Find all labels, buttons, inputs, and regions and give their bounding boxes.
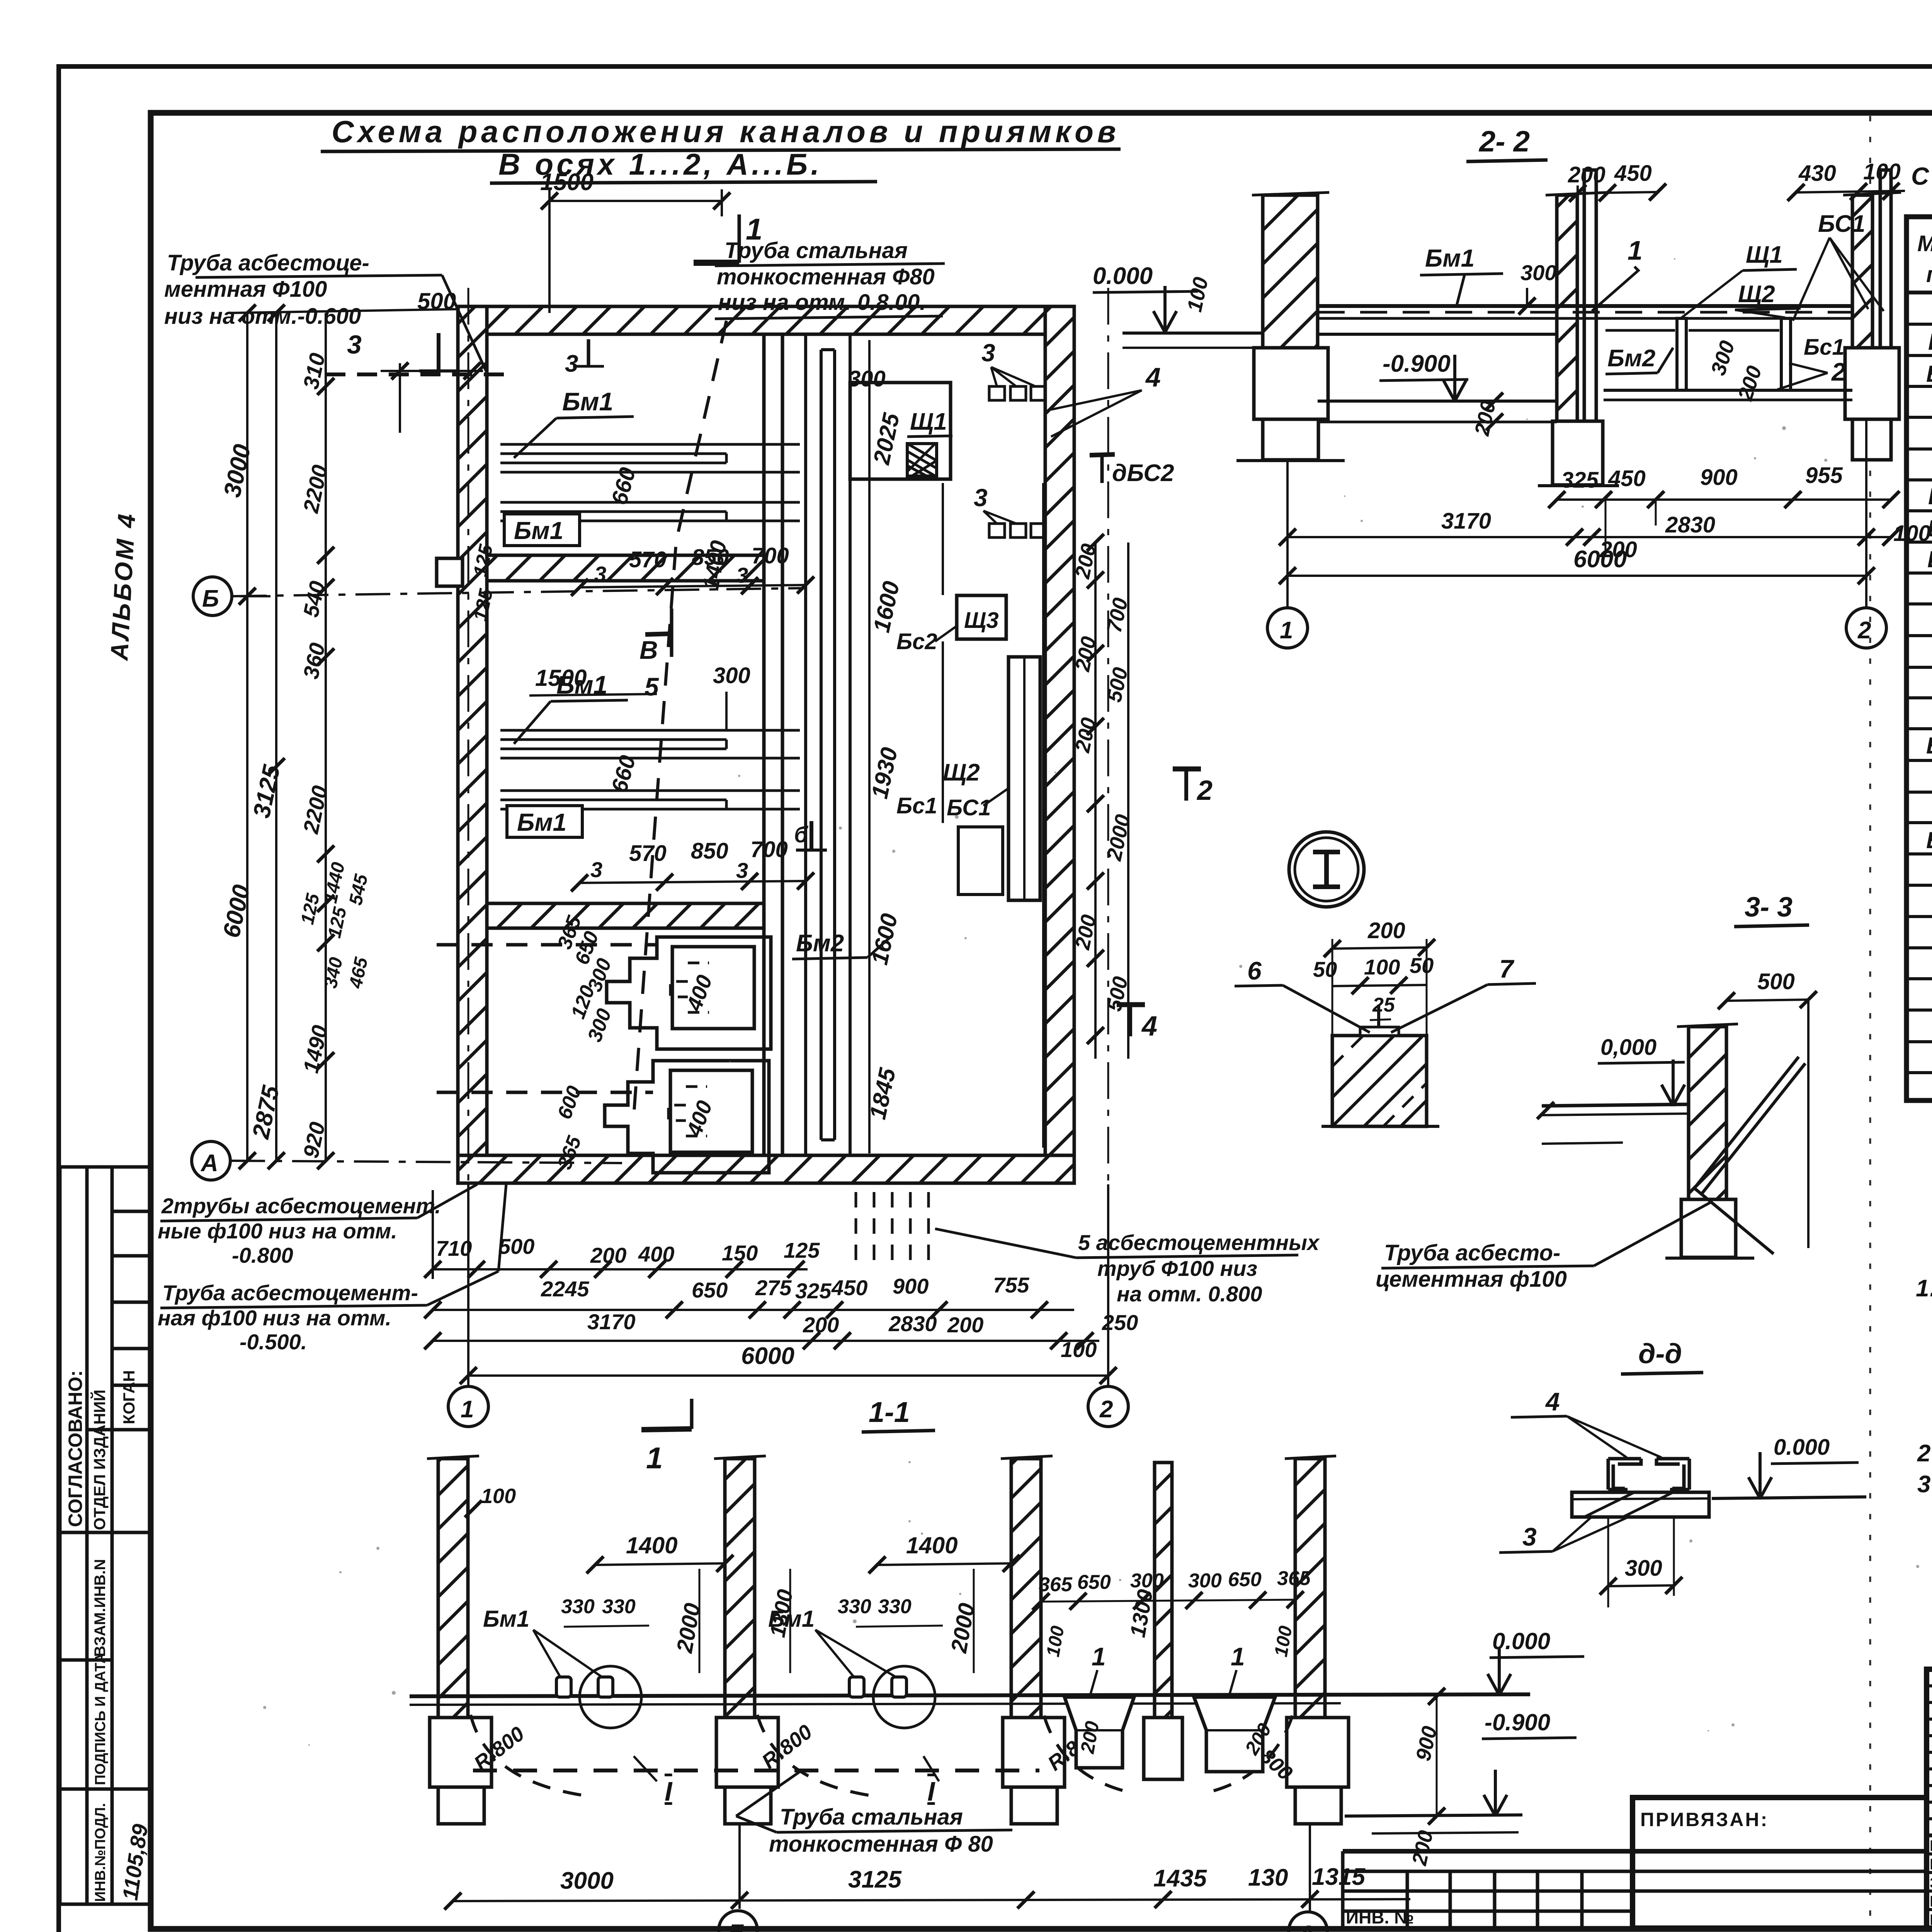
svg-text:ные ф100 низ на отм.: ные ф100 низ на отм. xyxy=(158,1219,397,1243)
T2 cut flag xyxy=(1173,767,1201,772)
svg-text:Щ1: Щ1 xyxy=(1746,241,1783,268)
svg-text:900: 900 xyxy=(893,1274,929,1298)
pit 1 stepped outline xyxy=(607,937,771,1049)
box Щ3 xyxy=(957,595,1006,639)
1-1 dims 365 650 300 300 650 365 xyxy=(1039,1567,1311,1596)
3-3 diagonal pipe xyxy=(1694,1057,1805,1254)
svg-text:1: 1 xyxy=(461,1396,474,1423)
svg-text:Бм1: Бм1 xyxy=(1425,244,1475,272)
svg-text:365: 365 xyxy=(1277,1567,1311,1590)
plan bottom dim row C xyxy=(433,1340,1099,1342)
plan bottom exterior wall xyxy=(458,1155,1074,1183)
svg-text:5 асбестоцементных: 5 асбестоцементных xyxy=(1078,1230,1320,1255)
svg-text:ОТДЕЛ ИЗДАНИЙ: ОТДЕЛ ИЗДАНИЙ xyxy=(90,1389,109,1530)
svg-text:цементная ф100: цементная ф100 xyxy=(1376,1267,1567,1292)
svg-text:А: А xyxy=(200,1150,218,1177)
dashed lines pits to wall xyxy=(437,943,657,947)
interior vertical wall xyxy=(764,334,782,1155)
1-1 footing f2 xyxy=(716,1718,778,1787)
channel vertical lines xyxy=(806,334,850,1155)
svg-text:100: 100 xyxy=(1893,521,1931,546)
svg-text:2830: 2830 xyxy=(1665,512,1715,537)
1-1 stud pair 2 xyxy=(849,1677,906,1697)
svg-text:1400: 1400 xyxy=(626,1532,677,1558)
svg-text:325: 325 xyxy=(795,1279,832,1303)
svg-text:2: 2 xyxy=(1857,617,1871,644)
svg-text:-0.500.: -0.500. xyxy=(240,1330,307,1354)
svg-text:низ на отм. 0.8.00.: низ на отм. 0.8.00. xyxy=(718,290,926,315)
svg-text:2245: 2245 xyxy=(541,1277,589,1301)
plan right exterior wall xyxy=(1045,306,1074,1183)
svg-text:450: 450 xyxy=(831,1276,867,1300)
top pipe text асбестоцементная xyxy=(164,250,369,329)
svg-text:3: 3 xyxy=(590,857,602,882)
svg-text:1: 1 xyxy=(1092,1642,1106,1671)
3-3 footing xyxy=(1681,1199,1736,1257)
notes text block xyxy=(1916,1275,1932,1498)
title block outline xyxy=(1633,1669,1932,1928)
1-1 column c4 thin xyxy=(1155,1463,1172,1718)
axis Б dash line xyxy=(232,588,806,596)
beam bundle B room2 xyxy=(500,730,800,809)
2-2 hanging panels xyxy=(1604,318,1852,400)
2-2 dim 200 450 top xyxy=(1568,161,1652,187)
1-1 column c5 xyxy=(1295,1459,1325,1718)
svg-text:Труба асбестоце-: Труба асбестоце- xyxy=(167,250,369,276)
svg-text:на отм. 0.800: на отм. 0.800 xyxy=(1117,1282,1262,1306)
3-3 pipe text xyxy=(1376,1240,1567,1292)
svg-text:ПОДПИСЬ И ДАТА: ПОДПИСЬ И ДАТА xyxy=(92,1653,109,1785)
svg-text:100: 100 xyxy=(1364,955,1400,979)
svg-text:Бс2: Бс2 xyxy=(1926,827,1932,853)
dashed pipe through left wall xyxy=(325,372,514,376)
table body texts xyxy=(1926,297,1932,1099)
title block signature texts xyxy=(1930,1837,1932,1929)
right dim chain of plan xyxy=(1095,543,1128,1059)
2-2 right columns xyxy=(1852,195,1872,348)
1-1 footing f1 xyxy=(430,1718,492,1787)
3-3 floor lines xyxy=(1542,1104,1689,1106)
svg-text:850: 850 xyxy=(691,838,728,864)
svg-text:5: 5 xyxy=(645,672,659,701)
cut mark 2 flag xyxy=(645,634,672,634)
svg-text:Бм2: Бм2 xyxy=(1926,361,1932,387)
1-1 column c1 xyxy=(438,1459,468,1718)
axis circle 2 plan xyxy=(1088,1386,1128,1427)
svg-text:Бс1: Бс1 xyxy=(1804,335,1845,360)
1-1 dashed Rarcs xyxy=(471,1715,1293,1796)
plan left exterior wall xyxy=(458,306,487,1183)
svg-text:Б: Б xyxy=(202,585,219,612)
svg-text:ИНЖ ДК: ИНЖ ДК xyxy=(1930,1856,1932,1873)
svg-text:2: 2 xyxy=(1831,357,1846,386)
svg-text:Бм2: Бм2 xyxy=(1607,345,1655,372)
svg-text:130: 130 xyxy=(1248,1864,1288,1891)
svg-text:1: 1 xyxy=(646,1441,663,1475)
1-1 steel pipe text xyxy=(769,1804,993,1857)
svg-text:Спецификация к схеме расположе: Спецификация к схеме расположения канало… xyxy=(1911,162,1932,190)
5 pipe text xyxy=(1078,1230,1320,1306)
extra channel inner lines right side xyxy=(869,340,1043,1153)
svg-text:2трубы асбестоцемент.: 2трубы асбестоцемент. xyxy=(161,1194,441,1218)
svg-text:Труба стальная: Труба стальная xyxy=(724,238,908,263)
svg-text:200: 200 xyxy=(1367,918,1405,943)
svg-text:I: I xyxy=(665,1776,673,1806)
svg-text:б: б xyxy=(794,822,809,847)
svg-text:25: 25 xyxy=(1372,994,1395,1016)
plan bottom dim row A xyxy=(433,1190,808,1279)
svg-text:ментная Ф100: ментная Ф100 xyxy=(164,277,327,302)
svg-text:500: 500 xyxy=(1757,969,1795,994)
svg-text:Бм1: Бм1 xyxy=(517,808,566,836)
svg-text:ПРОВЕР: ПРОВЕР xyxy=(1930,1837,1932,1854)
svg-text:поз.: поз. xyxy=(1926,262,1932,287)
svg-text:Щ3: Щ3 xyxy=(1927,546,1932,572)
fold mark dashed line xyxy=(1869,116,1871,1926)
svg-text:430: 430 xyxy=(1798,161,1836,186)
svg-text:2. Трубы учтены на листах марк: 2. Трубы учтены на листах марки ЭМ. xyxy=(1917,1440,1932,1467)
room1 dims 570 850 700 xyxy=(629,543,789,572)
1-1 under-floor dashed line xyxy=(473,1769,1039,1772)
svg-text:1: 1 xyxy=(1280,617,1293,644)
1-1 column c2 xyxy=(725,1459,755,1718)
svg-text:В: В xyxy=(639,636,658,664)
section cut 1 bottom xyxy=(641,1429,692,1430)
panel small box xyxy=(958,827,1003,895)
svg-text:I: I xyxy=(927,1776,935,1806)
svg-text:6000: 6000 xyxy=(741,1343,794,1369)
svg-text:Бс2: Бс2 xyxy=(896,629,937,654)
svg-text:500: 500 xyxy=(417,288,456,314)
beam label Бм1 boxed room1 xyxy=(504,514,580,546)
specification table grid xyxy=(1906,217,1932,1100)
svg-text:Бм1: Бм1 xyxy=(483,1606,529,1632)
svg-text:1-1: 1-1 xyxy=(869,1396,910,1428)
2-2 right footing xyxy=(1845,348,1899,419)
svg-text:ПРИВЯЗАН:: ПРИВЯЗАН: xyxy=(1640,1809,1769,1830)
svg-text:3: 3 xyxy=(736,858,748,883)
svg-text:300: 300 xyxy=(848,366,886,391)
svg-text:1: 1 xyxy=(1231,1642,1245,1671)
1-1 column c3 xyxy=(1011,1459,1041,1718)
2-2 left column xyxy=(1263,195,1318,348)
pilaster at axis Б xyxy=(437,558,463,586)
svg-text:3: 3 xyxy=(594,562,606,586)
title block left sub-table xyxy=(1927,1669,1932,1928)
svg-text:4: 4 xyxy=(1545,1387,1560,1416)
svg-text:1. Трубы заложить в бетонной п: 1. Трубы заложить в бетонной подготовке … xyxy=(1916,1275,1932,1302)
svg-text:НАЧ.ОТД: НАЧ.ОТД xyxy=(1930,1912,1932,1929)
svg-text:6000: 6000 xyxy=(1573,546,1627,573)
svg-text:650: 650 xyxy=(692,1278,728,1302)
svg-text:200: 200 xyxy=(803,1313,839,1337)
svg-text:700: 700 xyxy=(750,837,788,862)
svg-text:Щ2: Щ2 xyxy=(1738,281,1775,308)
svg-text:СОГЛАСОВАНО:: СОГЛАСОВАНО: xyxy=(65,1370,86,1527)
БС2 flag top xyxy=(1090,454,1115,455)
axis circle 1 plan xyxy=(448,1386,488,1427)
svg-text:3170: 3170 xyxy=(1441,509,1491,534)
svg-text:Труба асбесто-: Труба асбесто- xyxy=(1384,1240,1560,1265)
2-2 left footing xyxy=(1254,348,1328,419)
1-1 footing f3 xyxy=(1003,1718,1065,1787)
2-2 floor slab left span xyxy=(1318,306,1852,422)
svg-text:3: 3 xyxy=(981,339,995,367)
svg-text:200: 200 xyxy=(1568,162,1605,187)
svg-text:3: 3 xyxy=(565,350,578,377)
svg-text:1: 1 xyxy=(1628,235,1643,265)
svg-text:Бм1: Бм1 xyxy=(562,387,613,416)
svg-text:3: 3 xyxy=(736,563,748,587)
steel pipe text xyxy=(717,238,935,315)
svg-text:низ на отм.-0.600: низ на отм.-0.600 xyxy=(164,304,361,329)
svg-text:1500: 1500 xyxy=(535,665,587,691)
2-2 axis circles xyxy=(1286,461,1289,607)
svg-text:тонкостенная Ф 80: тонкостенная Ф 80 xyxy=(769,1832,993,1857)
table header texts xyxy=(1917,230,1932,287)
2-2 bottom dim row 2 xyxy=(1287,536,1891,538)
svg-text:3125: 3125 xyxy=(848,1866,902,1893)
svg-text:500: 500 xyxy=(498,1234,534,1259)
svg-text:300: 300 xyxy=(1130,1570,1164,1592)
б flag in channel xyxy=(810,821,813,850)
axis circle Б xyxy=(193,577,232,616)
svg-text:150: 150 xyxy=(722,1241,758,1265)
T4 cut flag xyxy=(1117,1002,1145,1007)
svg-text:50: 50 xyxy=(1313,957,1337,981)
svg-text:Бм1: Бм1 xyxy=(1928,329,1932,355)
plan bottom dim row D 6000 xyxy=(468,1374,1108,1377)
3-3 wall xyxy=(1689,1027,1726,1199)
pit 2 stepped outline xyxy=(605,1061,769,1173)
scan speckle noise xyxy=(263,258,1932,1746)
svg-text:850: 850 xyxy=(692,545,729,570)
1-1 dims 330 330 xyxy=(561,1595,912,1618)
1-1 bottom dim row xyxy=(453,1899,1410,1901)
svg-text:650: 650 xyxy=(1077,1571,1111,1594)
1-1 axis circle Б xyxy=(738,1824,741,1909)
svg-text:100: 100 xyxy=(481,1485,516,1508)
svg-text:д-д: д-д xyxy=(1638,1338,1682,1369)
svg-text:200: 200 xyxy=(947,1313,983,1337)
2-2 middle columns xyxy=(1557,195,1577,421)
svg-text:100: 100 xyxy=(1061,1337,1097,1362)
plan top exterior wall xyxy=(458,306,1074,334)
svg-text:2- 2: 2- 2 xyxy=(1478,125,1530,158)
detail I concrete block xyxy=(1332,1036,1427,1126)
svg-text:4: 4 xyxy=(1145,362,1161,392)
beam label Бм1 boxed room2 xyxy=(507,806,582,837)
2-2 bottom dim row 1 xyxy=(1557,498,1891,501)
hatched anchor square xyxy=(907,444,937,476)
right tall panel xyxy=(1009,657,1040,900)
svg-text:125: 125 xyxy=(784,1238,820,1262)
д-д plate xyxy=(1572,1492,1709,1517)
svg-text:ЗАВ.ГР.: ЗАВ.ГР. xyxy=(1930,1874,1932,1891)
svg-text:Труба асбестоцемент-: Труба асбестоцемент- xyxy=(162,1281,418,1305)
svg-text:50: 50 xyxy=(1410,953,1434,978)
svg-text:365: 365 xyxy=(1039,1573,1073,1596)
svg-text:2: 2 xyxy=(1099,1396,1113,1423)
5 pipes dashed bottom xyxy=(856,1192,929,1267)
svg-text:1400: 1400 xyxy=(906,1532,957,1558)
1-1 footing f4 xyxy=(1144,1718,1182,1779)
svg-text:0.000: 0.000 xyxy=(1492,1628,1550,1654)
2-2 dim 430 100 top xyxy=(1798,159,1901,186)
left dim chain 1 xyxy=(228,309,460,1161)
svg-text:Бм1: Бм1 xyxy=(514,517,563,544)
svg-text:Марка,: Марка, xyxy=(1917,231,1932,256)
svg-text:710: 710 xyxy=(436,1236,472,1260)
svg-text:тонкостенная Ф80: тонкостенная Ф80 xyxy=(717,264,935,289)
svg-text:300: 300 xyxy=(1625,1556,1662,1581)
1-1 axis circle А xyxy=(1309,1824,1311,1911)
svg-text:БС1: БС1 xyxy=(947,795,991,820)
detail I top plate xyxy=(1360,1027,1399,1036)
left margin stamp strip 2 xyxy=(60,1532,151,1904)
small embed plates top xyxy=(989,386,1045,537)
detail I dims 50 100 50 xyxy=(1313,953,1434,981)
plan axis 2 dash-dot vertical xyxy=(1107,288,1109,1385)
beam bundle A room1 xyxy=(500,444,800,521)
svg-text:1500: 1500 xyxy=(540,169,594,196)
svg-text:А: А xyxy=(1298,1921,1315,1932)
svg-text:3: 3 xyxy=(1522,1522,1537,1551)
svg-text:300: 300 xyxy=(713,663,750,688)
svg-text:-0.900: -0.900 xyxy=(1383,350,1451,377)
svg-text:955: 955 xyxy=(1805,463,1843,488)
svg-text:330: 330 xyxy=(561,1595,595,1618)
svg-text:450: 450 xyxy=(1608,466,1646,491)
svg-text:Труба стальная: Труба стальная xyxy=(780,1804,963,1830)
svg-text:650: 650 xyxy=(1228,1568,1262,1591)
svg-text:400: 400 xyxy=(638,1242,674,1266)
bottom small revision table xyxy=(1343,1851,1927,1928)
svg-text:ИНВ. №: ИНВ. № xyxy=(1346,1907,1414,1927)
svg-text:100: 100 xyxy=(1863,159,1901,184)
plan axis 1 dash-dot vertical xyxy=(468,288,469,1385)
svg-text:7: 7 xyxy=(1499,954,1515,983)
svg-text:Н.КОНТР.: Н.КОНТР. xyxy=(1930,1893,1932,1910)
svg-text:275: 275 xyxy=(755,1276,792,1300)
svg-text:Бм2: Бм2 xyxy=(796,930,844,957)
svg-text:300: 300 xyxy=(1188,1570,1222,1592)
svg-text:325: 325 xyxy=(1561,468,1599,493)
д-д channels xyxy=(1608,1459,1689,1490)
svg-text:0,000: 0,000 xyxy=(1600,1035,1656,1060)
svg-text:570: 570 xyxy=(629,841,667,866)
pit rotated dims column xyxy=(553,913,616,1172)
svg-text:дБС2: дБС2 xyxy=(1112,460,1174,486)
svg-text:Щ1: Щ1 xyxy=(1928,483,1932,509)
detail I circle xyxy=(1289,832,1364,907)
svg-text:4: 4 xyxy=(1141,1011,1157,1042)
2-2 middle footing xyxy=(1553,421,1603,485)
2-2 bottom dim row 3 xyxy=(1287,575,1866,577)
plan axis verticals xyxy=(467,1184,469,1386)
svg-text:-0.900: -0.900 xyxy=(1485,1709,1550,1735)
dashed leader to channel xyxy=(634,321,726,1117)
svg-text:300: 300 xyxy=(1520,260,1556,285)
svg-text:200: 200 xyxy=(590,1243,626,1267)
svg-text:3. Поз. 6,7 узла I учтены в: 3. Поз. 6,7 узла I учтены в спецификации… xyxy=(1917,1471,1932,1498)
svg-text:труб Ф100 низ: труб Ф100 низ xyxy=(1097,1256,1257,1281)
svg-text:3000: 3000 xyxy=(560,1867,614,1894)
svg-text:-0.800: -0.800 xyxy=(232,1243,293,1267)
svg-text:1315: 1315 xyxy=(1312,1864,1366,1890)
svg-text:6: 6 xyxy=(1247,956,1262,985)
box Щ1 xyxy=(850,383,951,479)
plan middle wall 2 xyxy=(487,903,764,928)
left margin stamp strip 1 xyxy=(60,1167,151,1532)
svg-text:Бс1: Бс1 xyxy=(1926,733,1932,759)
svg-text:1435: 1435 xyxy=(1153,1865,1207,1892)
1-1 stud pair 1 xyxy=(556,1677,613,1697)
svg-text:2: 2 xyxy=(1196,775,1213,806)
svg-text:ВЗАМ.ИНВ.N: ВЗАМ.ИНВ.N xyxy=(92,1559,109,1657)
svg-text:3: 3 xyxy=(974,484,988,512)
svg-text:450: 450 xyxy=(1614,161,1652,186)
svg-text:ИНВ.№ПОДЛ.: ИНВ.№ПОДЛ. xyxy=(92,1803,109,1902)
plan middle wall 1 xyxy=(487,555,782,581)
bottom-left pipe texts xyxy=(158,1194,441,1354)
rotated chain labels xyxy=(218,351,372,1160)
svg-text:570: 570 xyxy=(629,547,667,572)
axis circle А xyxy=(192,1141,230,1180)
svg-text:330: 330 xyxy=(602,1595,636,1618)
slab lines right of plan xyxy=(1122,332,1264,335)
1-1 footing f5 xyxy=(1287,1718,1349,1787)
svg-text:755: 755 xyxy=(993,1273,1029,1297)
plan bottom dim row B xyxy=(433,1309,1074,1311)
svg-text:КОГАН: КОГАН xyxy=(120,1370,138,1424)
svg-text:Щ3: Щ3 xyxy=(964,608,999,633)
svg-text:3170: 3170 xyxy=(587,1310,636,1334)
svg-text:ная ф100 низ на отм.: ная ф100 низ на отм. xyxy=(158,1306,391,1330)
svg-text:330: 330 xyxy=(838,1595,871,1618)
svg-text:3: 3 xyxy=(347,330,362,359)
svg-text:Щ2: Щ2 xyxy=(943,759,980,786)
1-1 pit A xyxy=(1065,1697,1134,1768)
svg-text:0.000: 0.000 xyxy=(1774,1435,1830,1460)
svg-text:0.000: 0.000 xyxy=(1093,263,1153,289)
svg-text:2830: 2830 xyxy=(888,1311,937,1336)
svg-text:Бс1: Бс1 xyxy=(896,793,937,818)
1-1 pit B xyxy=(1194,1697,1275,1772)
svg-text:3- 3: 3- 3 xyxy=(1745,892,1793,923)
axis А dash line xyxy=(230,1161,622,1163)
section cut 1 top xyxy=(738,214,741,263)
svg-text:Б: Б xyxy=(728,1920,745,1932)
1-1 floor line xyxy=(410,1694,1530,1696)
svg-text:Щ1: Щ1 xyxy=(910,408,947,435)
svg-text:900: 900 xyxy=(1700,465,1738,490)
svg-text:700: 700 xyxy=(752,543,789,568)
svg-text:БС1: БС1 xyxy=(1818,211,1865,237)
svg-text:330: 330 xyxy=(878,1595,912,1618)
